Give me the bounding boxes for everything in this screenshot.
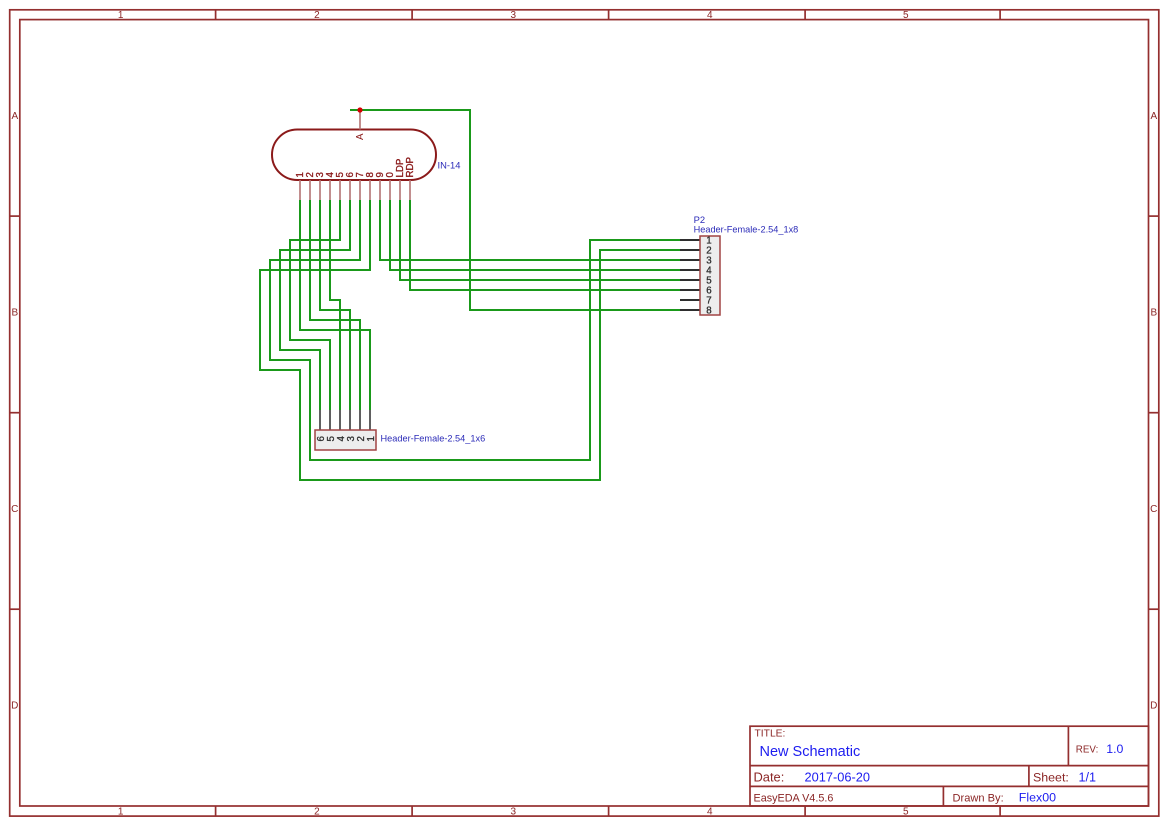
connector P2 pins [680,240,700,310]
svg-text:A: A [355,133,366,140]
svg-text:Date:: Date: [754,770,785,785]
connector P2 pin numbers [706,236,712,317]
wire nixie pin 2 to J1 pin 2 [310,200,360,410]
svg-text:D: D [11,701,18,712]
svg-text:REV:: REV: [1076,744,1099,755]
wire net A: nixie anode to P2 pin 8 [350,110,680,310]
wire nixie pin 0 to P2 pin 4 [390,200,680,270]
svg-text:C: C [11,504,18,515]
svg-text:C: C [1150,504,1157,515]
svg-text:B: B [11,308,18,319]
svg-text:B: B [1150,308,1157,319]
svg-text:1: 1 [118,10,124,21]
svg-text:Drawn By:: Drawn By: [953,793,1004,805]
svg-text:EasyEDA V4.5.6: EasyEDA V4.5.6 [754,793,834,805]
svg-text:3: 3 [511,10,517,21]
svg-text:RDP: RDP [405,157,416,177]
connector J1 pins [320,410,370,430]
svg-text:Flex00: Flex00 [1019,790,1056,804]
junction node on net A [357,107,362,112]
frame column numbers bottom [118,806,909,817]
connector J1 pin numbers [316,436,377,442]
nixie pin number labels [295,157,416,177]
nixie bottom pins 1..RDP [300,180,410,200]
frame row letters left [11,111,18,712]
svg-text:A: A [1150,111,1157,122]
svg-text:2: 2 [314,806,320,817]
title block frame [750,726,1149,806]
frame row letters right [1150,111,1157,712]
connector J1 body [315,430,376,450]
svg-text:5: 5 [903,806,909,817]
svg-text:3: 3 [511,806,517,817]
svg-text:Header-Female-2.54_1x8: Header-Female-2.54_1x8 [694,224,799,234]
svg-text:1: 1 [366,436,377,441]
svg-text:Header-Female-2.54_1x6: Header-Female-2.54_1x6 [381,434,486,444]
svg-text:New Schematic: New Schematic [760,744,861,760]
svg-text:4: 4 [707,806,713,817]
wire nixie pin 5 to J1 pin 5 [290,200,340,410]
svg-text:4: 4 [707,10,713,21]
svg-text:1.0: 1.0 [1106,742,1123,756]
svg-text:1: 1 [118,806,124,817]
frame column numbers top [118,10,909,21]
wire nixie pin RDP to P2 pin 6 [410,200,680,290]
svg-text:TITLE:: TITLE: [755,729,786,740]
svg-text:8: 8 [706,306,711,317]
wire nixie pin 8 to P2 pin 2 [260,200,680,480]
wire nixie pin 9 to P2 pin 3 [380,200,680,260]
nixie pin A (anode) [359,110,361,130]
nixie tube IN-14 body [272,130,436,181]
svg-text:5: 5 [903,10,909,21]
wire nixie pin 7 to P2 pin 1 [270,200,680,460]
svg-text:IN-14: IN-14 [438,159,461,170]
svg-text:D: D [1150,701,1157,712]
connector P2 body [700,236,720,315]
wire nixie pin 4 to J1 pin 4 [330,200,340,410]
svg-text:A: A [11,111,18,122]
svg-text:Sheet:: Sheet: [1033,771,1069,785]
wire nixie pin 1 to J1 pin 1 [300,200,370,410]
svg-text:2: 2 [314,10,320,21]
svg-text:2017-06-20: 2017-06-20 [805,770,870,785]
wire nixie pin LDP to P2 pin 5 [400,200,680,280]
wire nixie pin 6 to J1 pin 6 [280,200,350,410]
svg-text:1/1: 1/1 [1079,771,1097,785]
wire nixie pin 3 to J1 pin 3 [320,200,350,410]
